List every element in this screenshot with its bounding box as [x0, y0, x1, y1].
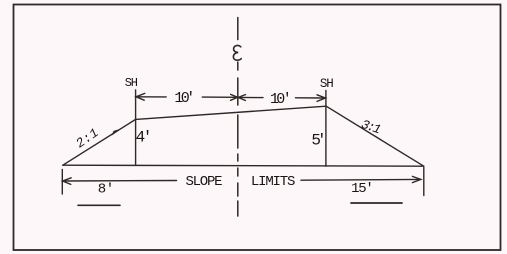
ground baseline	[63, 165, 424, 166]
left slope line 2:1	[63, 119, 136, 165]
centerline symbol	[233, 45, 241, 60]
bottom dimension line (slope limits) left segment	[63, 180, 177, 183]
svg-text:8': 8'	[98, 181, 114, 197]
left 10' dimension line	[136, 96, 166, 98]
left SH vertical line (4' measure)	[135, 90, 137, 165]
right SH vertical line (5' measure)	[325, 91, 327, 167]
right slope line 3:1	[326, 106, 424, 166]
right toe extension line	[423, 168, 425, 196]
bottom dim left arrow	[63, 178, 72, 185]
svg-text:LIMITS: LIMITS	[251, 174, 296, 190]
svg-text:10': 10'	[174, 90, 195, 107]
svg-text:SH: SH	[320, 77, 334, 91]
right station underline	[351, 202, 402, 204]
svg-text:5': 5'	[311, 132, 326, 150]
centerline (dashed vertical)	[237, 18, 239, 217]
road surface line	[136, 106, 327, 119]
right 10' dimension line	[238, 96, 263, 98]
left 10' dim arrow at centerline	[231, 94, 238, 100]
svg-text:SLOPE: SLOPE	[186, 174, 223, 190]
svg-text:SH: SH	[125, 76, 138, 90]
right 10' dim arrow at SH	[317, 95, 326, 102]
left station underline	[78, 204, 120, 206]
left toe extension line	[61, 170, 63, 195]
bottom dim right arrow	[412, 176, 420, 182]
svg-text:15': 15'	[351, 181, 374, 197]
slope direction arrowhead	[113, 130, 120, 135]
right 10' dim arrow at centerline	[238, 95, 245, 101]
svg-text:10': 10'	[270, 91, 292, 108]
svg-text:4': 4'	[136, 129, 153, 147]
left 10' dim arrow at SH	[136, 93, 145, 100]
bottom dimension line right segment	[301, 178, 421, 181]
